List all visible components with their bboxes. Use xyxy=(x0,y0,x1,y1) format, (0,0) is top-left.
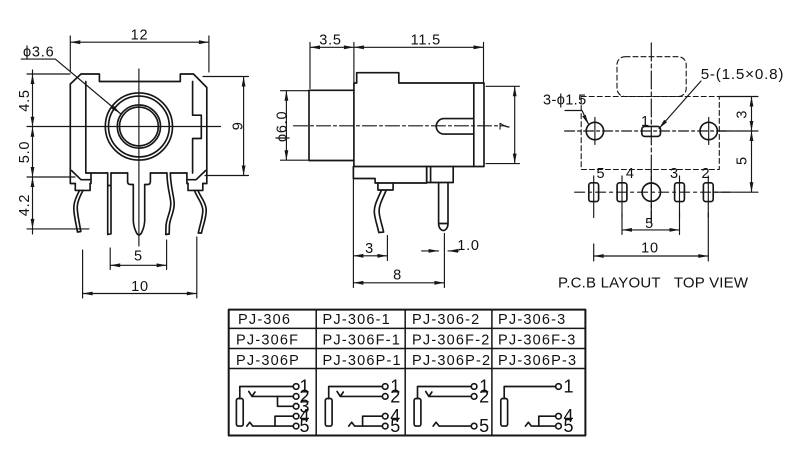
hole pad left crosshair xyxy=(594,118,596,145)
dimension 10 arrows xyxy=(83,292,197,296)
foot left xyxy=(75,184,90,191)
svg-text:PJ-306P: PJ-306P xyxy=(236,353,300,369)
dimension 1.0 arrows xyxy=(429,249,458,253)
dashed body outline top view xyxy=(581,97,719,170)
schematic cell 3 spring wire terminal 5 xyxy=(433,422,471,426)
pcb dimension 10 arrows xyxy=(594,254,709,258)
inner wall left xyxy=(85,82,87,174)
svg-text:1.0: 1.0 xyxy=(457,238,480,254)
schematic terminal numbers xyxy=(300,377,574,437)
schematic cell 4 spring wire terminal 5 xyxy=(525,422,556,426)
schematic cell 4 jack bar xyxy=(501,399,508,427)
schematic cell 2 terminal 1 xyxy=(382,384,388,390)
right chain arrows xyxy=(750,97,754,193)
schematic cell 1 terminal 5 xyxy=(293,423,299,429)
pcb dimension 10 xyxy=(594,213,709,261)
dimension 5 bottom xyxy=(110,240,166,270)
schematic cell 3 terminal 2 xyxy=(471,394,477,400)
straight pin side view xyxy=(439,183,448,231)
dimension 12 arrows xyxy=(70,40,209,44)
svg-text:4.5: 4.5 xyxy=(17,89,33,112)
slot 3 crosshair xyxy=(679,176,681,218)
bezel circle outer xyxy=(105,93,172,160)
leader phi3.6 underline and line xyxy=(21,59,120,113)
dimension 3.5 11.5 arrows xyxy=(310,45,484,49)
svg-text:2: 2 xyxy=(702,166,710,182)
pcb dimension 5 arrows xyxy=(622,228,680,232)
svg-text:PJ-306-2: PJ-306-2 xyxy=(412,312,480,328)
schematic cell 3 wire to terminal 1 xyxy=(418,387,472,399)
schematic cell 1 spring wire terminal 5 xyxy=(247,422,294,426)
pin 1 curved left xyxy=(74,190,83,232)
pcb dimension 5 xyxy=(622,213,680,235)
dimension 10 bottom xyxy=(83,237,197,298)
table outer border xyxy=(229,310,586,436)
svg-text:PJ-306P-2: PJ-306P-2 xyxy=(412,353,491,369)
leader 3-phi1.5 arrowhead xyxy=(582,115,588,125)
slot row centerline xyxy=(575,191,730,193)
right chain dims 3 and 5 xyxy=(714,97,758,193)
foot right xyxy=(188,184,203,191)
svg-text:2: 2 xyxy=(479,386,489,406)
inner wall right with latch notch xyxy=(193,82,202,174)
pin 4 curved xyxy=(166,173,174,235)
pin 5 curved right xyxy=(195,190,207,233)
centerline side view xyxy=(294,125,506,127)
dimension phi6.0 arrows xyxy=(285,91,289,161)
svg-text:PJ-306F: PJ-306F xyxy=(236,333,299,349)
schematic cell 1 contact wire terminal 2 xyxy=(249,392,294,397)
barrel side view xyxy=(309,90,354,160)
svg-text:PJ-306-3: PJ-306-3 xyxy=(498,312,566,328)
leader phi3.6 arrowhead xyxy=(111,106,120,114)
leader 3-phi1.5 xyxy=(565,111,589,125)
svg-text:10: 10 xyxy=(131,279,149,295)
jack slot side view xyxy=(436,119,474,135)
svg-text:3: 3 xyxy=(735,110,751,119)
schematic cell 1 jumper 2-3 xyxy=(278,396,294,406)
schematic cell 2 terminal 5 xyxy=(382,423,388,429)
svg-text:5: 5 xyxy=(645,216,654,232)
schematic cell 4 wire to terminal 1 xyxy=(504,387,556,399)
dimension 8 arrows xyxy=(353,281,444,285)
svg-text:4.2: 4.2 xyxy=(17,194,33,217)
svg-text:3: 3 xyxy=(670,166,678,182)
svg-text:11.5: 11.5 xyxy=(411,33,441,49)
center hole crosshair xyxy=(650,171,652,222)
schematic cell 3 contact wire terminal 2 xyxy=(426,392,472,397)
bottom block right side view xyxy=(427,167,454,183)
svg-text:8: 8 xyxy=(393,268,402,284)
centerline vertical front view xyxy=(138,69,140,246)
dimension 3 arrows xyxy=(353,254,387,258)
slot 4 xyxy=(617,183,627,202)
pin 2 straight xyxy=(108,173,111,235)
schematic cell 2 contact wire terminal 2 xyxy=(337,392,383,397)
dimension 3 bottom middle xyxy=(353,167,387,288)
svg-text:5: 5 xyxy=(597,166,605,182)
svg-text:9: 9 xyxy=(231,121,247,130)
svg-text:ϕ3.6: ϕ3.6 xyxy=(23,45,54,61)
schematic cell 3 terminal 5 xyxy=(471,423,477,429)
slot 4 crosshair xyxy=(621,176,623,218)
dimension 12 xyxy=(70,36,209,72)
svg-text:5.0: 5.0 xyxy=(17,141,33,164)
svg-text:3: 3 xyxy=(365,241,374,257)
chain arrows xyxy=(31,74,35,229)
schematic cell 1 jack bar xyxy=(236,399,243,427)
inner right wall side view xyxy=(473,83,475,167)
schematic cell 2 terminal 4 xyxy=(382,413,388,419)
svg-text:PJ-306F-3: PJ-306F-3 xyxy=(498,333,577,349)
schematic cell 2 wire to terminal 1 xyxy=(329,387,383,399)
dimension chain 4.5 5.0 4.2 line xyxy=(27,70,89,234)
pad row centerline xyxy=(565,130,730,132)
hole pad right crosshair xyxy=(708,118,710,145)
svg-text:PJ-306P-3: PJ-306P-3 xyxy=(498,353,577,369)
pin 3 center blade xyxy=(128,173,151,235)
inner shelf xyxy=(86,172,187,174)
leader 5-(1.5x0.8) arrowhead xyxy=(659,120,667,129)
body outline front view xyxy=(70,74,207,184)
centerline horizontal front view xyxy=(27,126,221,128)
center hole slot row xyxy=(642,183,660,201)
dimension 3.5 and 11.5 xyxy=(310,43,484,89)
schematic cell 4 terminal 5 xyxy=(556,423,562,429)
svg-text:10: 10 xyxy=(641,241,659,257)
svg-text:5: 5 xyxy=(564,416,574,436)
schematic cell 1 terminal 1 xyxy=(293,384,299,390)
slot 5 crosshair xyxy=(593,176,595,218)
schematic cell 1 terminal 2 xyxy=(293,394,299,400)
svg-text:PJ-306F-1: PJ-306F-1 xyxy=(323,333,402,349)
dimension phi6.0 xyxy=(281,91,309,161)
schematic cell 3 jack bar xyxy=(414,399,421,427)
svg-text:5: 5 xyxy=(300,416,310,436)
slot 2 xyxy=(703,183,713,202)
svg-text:PJ-306-1: PJ-306-1 xyxy=(323,312,391,328)
leader 5-(1.5x0.8) xyxy=(659,81,701,129)
schematic cell 3 terminal 1 xyxy=(471,384,477,390)
hole pad right xyxy=(700,122,717,139)
jack hole inner circle xyxy=(119,107,158,146)
svg-text:5: 5 xyxy=(479,416,489,436)
inner chamfer right xyxy=(187,171,206,180)
dimension 7 xyxy=(486,86,520,163)
slot 5 xyxy=(589,183,599,202)
svg-text:1: 1 xyxy=(564,377,574,397)
schematic cell 4 terminal 1 xyxy=(556,384,562,390)
svg-text:PJ-306P-1: PJ-306P-1 xyxy=(323,353,402,369)
foot left side view xyxy=(353,167,426,184)
svg-text:2: 2 xyxy=(390,386,400,406)
schematic cell 1 wire to terminal 1 xyxy=(240,387,294,399)
vertical centerline top view xyxy=(650,43,652,222)
svg-text:7: 7 xyxy=(498,121,514,130)
dimension 1.0 xyxy=(422,250,459,252)
svg-text:4: 4 xyxy=(626,166,634,182)
schematic cell 2 terminal 2 xyxy=(382,394,388,400)
bezel circle ring xyxy=(108,96,169,157)
schematic cell 1 terminal 3 xyxy=(293,404,299,410)
schematic cell 1 terminal 4 xyxy=(293,413,299,419)
hole pad left xyxy=(586,122,603,139)
svg-text:3.5: 3.5 xyxy=(319,33,342,49)
dashed barrel outline top view xyxy=(617,57,686,97)
svg-text:5: 5 xyxy=(735,156,751,165)
svg-text:1: 1 xyxy=(641,114,649,130)
schematic cell 4 terminal 4 xyxy=(556,413,562,419)
slot 2 crosshair xyxy=(707,176,709,218)
svg-text:5: 5 xyxy=(134,249,143,265)
slot pad 1 xyxy=(642,126,661,136)
svg-text:P.C.B LAYOUT TOP VIEW: P.C.B LAYOUT TOP VIEW xyxy=(558,275,749,292)
dimension 9 xyxy=(203,77,249,176)
svg-text:3-ϕ1.5: 3-ϕ1.5 xyxy=(543,93,587,109)
dimension 9 arrows xyxy=(242,77,246,176)
svg-text:PJ-306: PJ-306 xyxy=(238,312,291,328)
slot 3 xyxy=(675,183,685,202)
svg-text:5: 5 xyxy=(390,416,400,436)
dimension 7 arrows xyxy=(513,86,517,163)
schematic cell 2 spring wire terminal 5 xyxy=(349,422,383,426)
curved pin side view xyxy=(374,183,393,233)
dimension 5 arrows xyxy=(110,263,166,267)
main body side view xyxy=(354,73,484,167)
table row 1 xyxy=(236,312,577,369)
svg-text:ϕ6.0: ϕ6.0 xyxy=(274,111,290,142)
inner chamfer left xyxy=(72,171,92,180)
schematic cell 2 wire terminal 4 xyxy=(363,416,383,426)
schematic cell 1 wire terminal 4 xyxy=(275,416,294,426)
schematic cell 2 jack bar xyxy=(325,399,332,427)
svg-text:PJ-306F-2: PJ-306F-2 xyxy=(412,333,491,349)
table inner lines xyxy=(229,310,586,436)
svg-text:5-(1.5×0.8): 5-(1.5×0.8) xyxy=(701,66,785,83)
jack hole circle xyxy=(117,105,160,148)
schematic cell 4 wire terminal 4 xyxy=(539,416,556,426)
svg-text:12: 12 xyxy=(131,28,149,44)
dimension 8 xyxy=(353,234,444,288)
